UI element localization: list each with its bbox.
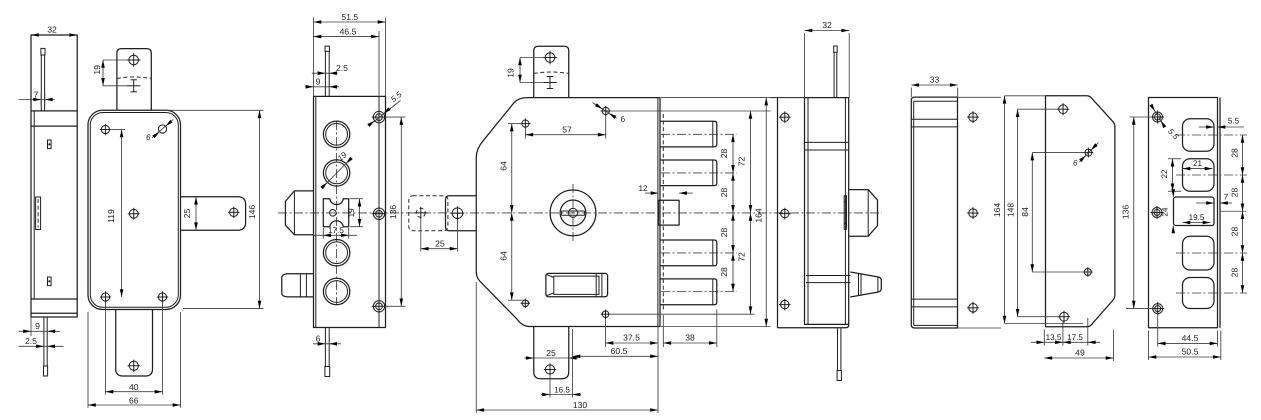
svg-text:25: 25 bbox=[435, 238, 445, 248]
inner edge line view1 bbox=[33, 111, 35, 299]
svg-text:19.5: 19.5 bbox=[1189, 213, 1205, 222]
dimension 17.5 view3 bbox=[322, 228, 324, 239]
svg-text:66: 66 bbox=[129, 395, 139, 405]
faceplate screw hole top view3 bbox=[373, 111, 384, 122]
svg-text:28: 28 bbox=[1230, 268, 1240, 278]
dimension 22 view9 bbox=[1168, 158, 1181, 160]
dimension 25 view4 bbox=[420, 218, 422, 252]
plate outline view3 bbox=[314, 96, 386, 327]
bottom pin rod view3 bbox=[324, 328, 326, 367]
dimension 164 view5 bbox=[661, 97, 771, 99]
svg-text:57: 57 bbox=[562, 124, 572, 134]
dimension 7 view9 bbox=[1196, 202, 1214, 204]
dimension 16.5 view5 bbox=[549, 375, 551, 398]
screw hole bottom view8 bbox=[1060, 312, 1069, 321]
bottom band lines view1 bbox=[31, 298, 77, 300]
svg-text:28: 28 bbox=[719, 228, 729, 238]
inner lines view7 bbox=[914, 100, 958, 102]
svg-text:19: 19 bbox=[92, 65, 102, 75]
svg-text:72: 72 bbox=[737, 157, 747, 167]
svg-text:17.5: 17.5 bbox=[328, 226, 344, 235]
dimension 119 view2 bbox=[110, 129, 125, 131]
dimension 130 view5 bbox=[475, 282, 477, 413]
bolt pin 4 view5 bbox=[660, 279, 717, 305]
svg-text:7: 7 bbox=[1224, 192, 1229, 201]
right flange line view9 bbox=[1219, 98, 1221, 328]
svg-text:50.5: 50.5 bbox=[1182, 347, 1199, 357]
bottom tab view5 bbox=[534, 327, 569, 379]
bolt centreline 1 bbox=[661, 133, 737, 135]
svg-text:12: 12 bbox=[638, 184, 648, 193]
dimension 49 view8 bbox=[1113, 330, 1115, 361]
dimension 60.5 view5 bbox=[657, 327, 659, 362]
screw hole top-left view5 bbox=[522, 120, 529, 127]
faceplate screw top view6 bbox=[781, 113, 789, 121]
faceplate screw hole middle view3 bbox=[373, 208, 384, 219]
hidden line through bolts view5 bbox=[662, 114, 664, 311]
svg-text:6: 6 bbox=[316, 333, 321, 343]
svg-text:25: 25 bbox=[182, 209, 192, 219]
svg-text:60.5: 60.5 bbox=[611, 346, 628, 356]
dimension 51.5 view3 bbox=[313, 18, 315, 97]
dimension 25 view5 tab bbox=[533, 330, 535, 361]
dimension 66 view2 bbox=[87, 312, 89, 408]
top band view7 bbox=[911, 118, 957, 120]
bottom tab hole view2 bbox=[129, 361, 138, 370]
screw hole top-right view5 with leader 6 bbox=[602, 107, 609, 114]
key slot view5 bbox=[561, 210, 584, 212]
solid tab view4 bbox=[446, 196, 477, 231]
dimension 25 view2 bbox=[195, 197, 197, 230]
svg-text:119: 119 bbox=[106, 209, 116, 223]
screw bottom view7 bbox=[969, 304, 978, 313]
deadbolt side view6 bbox=[849, 190, 877, 237]
top pin rod view6 bbox=[834, 46, 838, 52]
bolt centreline 2 bbox=[661, 172, 737, 174]
screw hole top view8 bbox=[1059, 105, 1068, 114]
screw hole bottom view9 bbox=[1153, 304, 1163, 314]
screw hole bottom-left view2 bbox=[101, 293, 109, 301]
screw hole top view9 bbox=[1153, 112, 1163, 122]
svg-text:16.5: 16.5 bbox=[554, 385, 570, 394]
svg-text:148: 148 bbox=[1005, 203, 1015, 218]
bolt pin 3 view5 bbox=[660, 240, 717, 266]
svg-text:2.5: 2.5 bbox=[25, 336, 37, 346]
left slot view1 bbox=[36, 197, 41, 230]
svg-text:33: 33 bbox=[930, 75, 940, 85]
screw hole bottom-right view2 bbox=[158, 293, 166, 301]
auxiliary latch bump view6 bbox=[850, 272, 881, 297]
hidden hole view4 bbox=[416, 208, 425, 217]
dimension 44.5 view9 bbox=[1157, 314, 1159, 347]
svg-text:136: 136 bbox=[388, 205, 398, 220]
auxiliary latch lines view6 bbox=[806, 275, 850, 277]
auxiliary latch view5 bbox=[659, 200, 680, 225]
screw hole middle view9 bbox=[1152, 208, 1162, 218]
dimension 40 view2 bbox=[105, 302, 107, 395]
tab hole view2 bbox=[129, 55, 139, 65]
dimension 72 upper view5 bbox=[610, 110, 771, 112]
svg-text:28: 28 bbox=[1230, 148, 1240, 158]
centreline row4 view9 bbox=[1176, 252, 1247, 254]
dimension 21 view9 bbox=[1183, 168, 1213, 170]
svg-text:6: 6 bbox=[146, 133, 151, 142]
svg-text:17.5: 17.5 bbox=[1067, 333, 1083, 342]
svg-text:32: 32 bbox=[47, 25, 57, 35]
bolt guide strip view6 bbox=[843, 196, 845, 230]
dimension 136 view3 bbox=[385, 116, 406, 118]
cutout 2 view9 bbox=[1183, 159, 1215, 192]
dimension 19.5 view9 bbox=[1183, 222, 1211, 224]
plate inner edge lines view3 bbox=[315, 96, 317, 327]
dimension 28 chain view5 bbox=[732, 134, 734, 291]
centreline row5 view9 bbox=[1176, 292, 1247, 294]
faceplate screw bottom view6 bbox=[781, 300, 789, 308]
dimension 28 chain view9 bbox=[1242, 135, 1244, 293]
svg-text:164: 164 bbox=[992, 203, 1002, 218]
svg-text:28: 28 bbox=[719, 267, 729, 277]
cylinder hole 4 view3 bbox=[323, 278, 349, 304]
hidden plate outline view4 bbox=[409, 196, 448, 231]
bottom pin rod view6 bbox=[837, 328, 839, 371]
svg-text:64: 64 bbox=[499, 251, 509, 261]
tab hole view4 bbox=[452, 208, 463, 219]
body outline view1 bbox=[31, 35, 77, 317]
follower hub view5 bbox=[550, 190, 596, 236]
dimension 37.5 view5 bbox=[605, 319, 607, 348]
screw hole bottom-left view5 bbox=[522, 300, 529, 307]
leader 5.5 view9 bbox=[1151, 105, 1164, 126]
svg-text:28: 28 bbox=[1230, 227, 1240, 237]
bolt pin 1 view5 bbox=[660, 121, 717, 147]
dimension 46.5 view3 bbox=[378, 31, 380, 96]
svg-text:40: 40 bbox=[129, 382, 139, 392]
svg-text:37.5: 37.5 bbox=[623, 333, 640, 343]
svg-text:24: 24 bbox=[1160, 207, 1169, 217]
cylinder hole 1 view3 bbox=[323, 121, 349, 147]
right latch tab view2 bbox=[181, 197, 246, 230]
spindle hub (square follower) view5 bbox=[546, 273, 608, 296]
bend line (dashed) view2 bbox=[117, 77, 151, 79]
svg-text:146: 146 bbox=[247, 205, 257, 220]
bottom pin rod view1 bbox=[43, 317, 45, 366]
dimension 84 view8 bbox=[1032, 152, 1084, 154]
faceplate screw middle view6 bbox=[781, 209, 789, 217]
cutout 1 view9 bbox=[1183, 119, 1215, 152]
top pin rod view1 bbox=[41, 48, 45, 55]
svg-text:6: 6 bbox=[1073, 159, 1078, 168]
svg-text:44.5: 44.5 bbox=[1182, 333, 1199, 343]
cylinder hole 3 view3 bbox=[323, 240, 349, 266]
dimension 32 view6 bbox=[804, 33, 806, 98]
screw middle view7 bbox=[969, 209, 978, 218]
centreline row2 view9 bbox=[1176, 174, 1247, 176]
screw hole bottom-right view5 bbox=[602, 311, 609, 318]
plate outline view8 bbox=[1046, 96, 1115, 327]
body outline view5 (octagonal case) bbox=[476, 98, 660, 327]
leader 5.5 view3 bbox=[371, 101, 401, 125]
square hole upper view1 bbox=[48, 140, 52, 149]
centreline row1 view9 bbox=[1176, 134, 1247, 136]
vertical centreline view3 bbox=[336, 121, 338, 305]
body outer outline view2 bbox=[88, 110, 181, 309]
dimension 148 view8 bbox=[1018, 108, 1059, 110]
dimension 24 view9 bbox=[1172, 189, 1174, 197]
bolt centreline 3 bbox=[661, 252, 737, 254]
svg-text:84: 84 bbox=[1020, 207, 1030, 217]
projection lines view7 bbox=[958, 96, 1002, 98]
centre mark view5 tab bbox=[543, 82, 556, 84]
faceplate screw hole bottom view3 bbox=[373, 301, 384, 312]
svg-text:9: 9 bbox=[316, 76, 321, 86]
svg-text:38: 38 bbox=[685, 333, 695, 343]
dimension 50.5 view9 bbox=[1148, 331, 1150, 361]
top pin rod view3 bbox=[325, 46, 329, 51]
svg-text:21: 21 bbox=[1193, 159, 1203, 168]
follower boss view3 bbox=[323, 199, 348, 227]
dimension 5.5 view9 bbox=[1199, 126, 1214, 128]
dimension 19 view5 tab bbox=[520, 57, 545, 59]
hole middle view8 bbox=[1084, 269, 1091, 276]
cutout 4 view9 bbox=[1183, 236, 1215, 270]
cutout 5 view9 bbox=[1183, 278, 1215, 309]
top band lines view1 bbox=[31, 110, 77, 112]
dimension 72 lower view5 bbox=[749, 306, 753, 314]
latch bump lower-left view3 bbox=[282, 274, 314, 297]
bottom tab view2 bbox=[116, 310, 153, 377]
svg-text:51.5: 51.5 bbox=[341, 12, 358, 22]
svg-text:130: 130 bbox=[573, 400, 588, 410]
svg-text:136: 136 bbox=[1121, 205, 1131, 220]
cylinder bump upper-left view3 bbox=[285, 191, 313, 235]
hole with leader 6 view8 bbox=[1085, 149, 1092, 156]
square hole lower view1 bbox=[48, 277, 52, 286]
bend line view5 tab bbox=[534, 72, 569, 74]
centreline extension view5 bottom bbox=[572, 329, 574, 398]
svg-text:25: 25 bbox=[546, 348, 556, 358]
dimension 19 view2 bbox=[103, 59, 129, 61]
hub centreline vertical view5 bbox=[572, 184, 574, 243]
svg-text:32: 32 bbox=[822, 20, 832, 30]
svg-text:72: 72 bbox=[737, 252, 747, 262]
screw top view7 bbox=[969, 113, 978, 122]
svg-text:19: 19 bbox=[347, 208, 356, 218]
svg-text:5.5: 5.5 bbox=[1228, 117, 1240, 126]
svg-text:22: 22 bbox=[1160, 169, 1169, 179]
bottom plate edge view6 bbox=[778, 325, 849, 328]
dimension 136 view9 bbox=[1130, 116, 1153, 118]
svg-text:64: 64 bbox=[499, 161, 509, 171]
bolt pin 2 view5 bbox=[660, 160, 717, 186]
svg-text:19: 19 bbox=[505, 68, 515, 78]
main horizontal centreline bbox=[278, 212, 882, 214]
case box view6 bbox=[805, 98, 849, 325]
svg-text:49: 49 bbox=[1075, 348, 1085, 358]
dimension 64 upper view5 bbox=[508, 123, 522, 125]
top tab view5 bbox=[534, 46, 569, 97]
latch tab hole view2 bbox=[230, 208, 238, 216]
dimension 146 view2 bbox=[155, 109, 264, 111]
svg-text:9: 9 bbox=[35, 321, 40, 331]
screw hole top-left view2 bbox=[101, 125, 109, 133]
bottom band view7 bbox=[911, 298, 957, 300]
right edge inner line view5 bbox=[657, 98, 659, 327]
tab hole view5 bbox=[545, 53, 555, 63]
bolt centreline 4 bbox=[661, 291, 737, 293]
centre mark view2 tab bbox=[127, 85, 140, 87]
faceplate edge view6 bbox=[777, 98, 779, 328]
top mounting tab view2 bbox=[117, 49, 151, 111]
svg-text:28: 28 bbox=[719, 188, 729, 198]
dimension 19 follower view3 bbox=[350, 198, 363, 200]
plate outline view9 bbox=[1149, 98, 1218, 328]
svg-text:28: 28 bbox=[1230, 188, 1240, 198]
bottom tab hole view5 bbox=[545, 365, 554, 374]
dimension 38 view5 bbox=[662, 315, 664, 347]
cylinder hole 2 view3 with leader 19 bbox=[323, 160, 349, 186]
top band view6 bbox=[805, 141, 849, 143]
svg-text:46.5: 46.5 bbox=[340, 26, 357, 36]
dimension 164 view8 bbox=[1005, 95, 1046, 97]
svg-text:28: 28 bbox=[719, 149, 729, 159]
box outline view7 bbox=[911, 97, 957, 328]
svg-text:13.5: 13.5 bbox=[1046, 333, 1062, 342]
dimension 64 lower view5 bbox=[510, 292, 514, 300]
screw hole top-right view2 with leader 6 bbox=[158, 125, 166, 133]
dimension 57 view5 bbox=[524, 129, 526, 139]
centreline row3 view9 bbox=[1220, 210, 1246, 212]
dimension 13.5 / 17.5 view8 bbox=[1043, 330, 1045, 346]
svg-text:2.5: 2.5 bbox=[336, 63, 348, 73]
cutout 3 (key hole) view9 bbox=[1174, 197, 1215, 226]
dimension 33 view7 bbox=[910, 88, 912, 98]
centre hole view2 bbox=[129, 209, 138, 218]
body inner outline view2 bbox=[90, 113, 178, 308]
svg-text:164: 164 bbox=[754, 208, 764, 223]
